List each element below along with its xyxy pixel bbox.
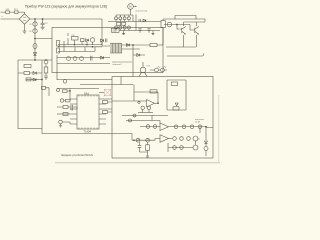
label R7 (72, 35, 75, 37)
wire aux top link (175, 16, 196, 20)
transistor Q1 (167, 22, 172, 27)
resistor R40 (204, 147, 208, 151)
label FU1 (6, 9, 18, 11)
resistor R19 (103, 101, 108, 104)
title text (25, 4, 107, 8)
label winding (112, 61, 132, 63)
resistor R20 (103, 111, 108, 114)
red mod component (104, 89, 110, 95)
capacitor C8 (67, 57, 71, 61)
diode VD7 (86, 39, 89, 42)
wire left rail (18, 59, 52, 61)
transistor Q9 (193, 136, 198, 141)
resistor R10 (57, 48, 60, 53)
wire sense mid (126, 116, 160, 124)
ground C27 (59, 124, 62, 128)
wire primary to T1 (102, 40, 110, 46)
resistor R28 (182, 125, 186, 129)
wire T1 secondary A (122, 44, 151, 46)
capacitor C18 (123, 26, 126, 29)
wire feedback left vertical (18, 60, 42, 129)
opamp U2 feedback loop (134, 85, 158, 104)
wire rectified vertical (132, 45, 134, 77)
wire ctrl bus B (57, 88, 99, 90)
diode VD9 (101, 56, 104, 59)
transistor Q8 (147, 106, 150, 109)
resistor R24 (133, 114, 136, 117)
capacitor C20 (139, 19, 140, 22)
wire right pin nets (106, 99, 112, 112)
wire primary lower (58, 47, 95, 52)
svg-text:220: 220 (112, 29, 117, 33)
resistor R11 (117, 22, 121, 25)
ground C2 (41, 27, 45, 29)
capacitor C21 (139, 29, 142, 33)
wire sense vertical (131, 134, 133, 141)
resistor R34 (180, 137, 184, 141)
wire pin3 net (57, 107, 77, 109)
resistor R16 (66, 99, 71, 102)
resistor R17 (63, 106, 68, 109)
wire LED link (150, 69, 167, 71)
svg-text:обмотка II: обмотка II (113, 64, 123, 66)
transistor Q3 (44, 60, 48, 64)
resistor R41 (26, 78, 31, 81)
capacitor C12 (115, 17, 118, 20)
wire T1 secondary B (122, 48, 141, 50)
wire fan arrow (133, 5, 136, 8)
wire emitter rail (166, 46, 196, 48)
op-amp U2 (147, 100, 155, 108)
wire out chain (206, 127, 213, 156)
resistor R5 (24, 72, 30, 75)
wire box stub (120, 77, 122, 85)
wire R14 (157, 44, 163, 46)
diode VD11 (127, 44, 130, 47)
bridge rectifier VD1 (19, 14, 30, 24)
resistor R42 (42, 86, 46, 89)
capacitor C22 (148, 29, 151, 33)
resistor R21 (150, 90, 157, 93)
resistor R29 (190, 125, 194, 129)
label setpoint (195, 119, 204, 123)
svg-text:ток: ток (197, 139, 200, 141)
IC right pins (99, 99, 106, 124)
capacitor C17 (119, 26, 122, 29)
wire R13 down (162, 19, 164, 45)
wire primary stubs (64, 33, 102, 47)
zener VD12 (137, 54, 140, 57)
ground R39 (146, 156, 149, 157)
wire fan down (130, 9, 132, 15)
wire cap bank vertical (135, 15, 137, 31)
capacitor C19 (127, 26, 130, 29)
resistor R26 (153, 125, 157, 129)
resistor R15 (63, 90, 68, 93)
resistor R39 (147, 142, 149, 156)
capacitor C15 (127, 17, 130, 20)
feedback loop box (167, 80, 186, 110)
wire U4 out (169, 138, 173, 140)
LED HL2 (161, 68, 165, 72)
transformer T1 (111, 43, 122, 53)
control box (112, 77, 213, 159)
wire branch to module (35, 38, 52, 40)
capacitor C24 (57, 89, 60, 92)
wire Q7 Q8 stubs (143, 110, 149, 113)
wire right bus end (163, 19, 205, 22)
varistor RU2 (33, 29, 37, 33)
svg-text:FU1: FU1 (6, 9, 10, 11)
varistor RU1 (33, 22, 37, 26)
svg-text:Прибор PW-123 (зарядное для ак: Прибор PW-123 (зарядное для аккумуляторо… (25, 4, 107, 8)
diode VD8 (101, 39, 104, 42)
node AC source ~ (1, 15, 3, 19)
wire snubber chain (34, 19, 36, 60)
ground module B (152, 31, 155, 35)
transistor Q2 (182, 27, 186, 35)
capacitor C9 (73, 57, 77, 61)
wire pin5 net (62, 122, 70, 124)
ground from bridge (24, 24, 26, 31)
bottom caption (61, 153, 94, 157)
wire R42 out (46, 88, 50, 96)
wire mid bus (108, 21, 161, 23)
wire ctrl top inner (57, 79, 112, 81)
wire pin1 net (67, 89, 70, 100)
svg-text:R10: R10 (72, 35, 75, 37)
IC pin ticks top (79, 95, 97, 97)
wire to primary cluster (101, 19, 103, 40)
resistor R23 (173, 107, 179, 110)
op-amp U3 (160, 123, 169, 131)
svg-text:TL494: TL494 (84, 130, 92, 134)
IC DA1 TL494 (77, 95, 99, 129)
wire U2 in (112, 100, 147, 102)
svg-text:DA1: DA1 (84, 91, 90, 95)
wire aux row lower (57, 63, 110, 65)
comparator chain top (140, 126, 160, 128)
svg-text:вентилятор: вентилятор (136, 11, 148, 13)
svg-text:Зарядное устройство PW-123: Зарядное устройство PW-123 (61, 153, 94, 157)
wire cap row stubs (116, 15, 129, 22)
wire cap row2 stubs (116, 25, 129, 30)
capacitor C10 (80, 57, 84, 61)
label fan (136, 11, 148, 13)
label C2 (45, 23, 48, 25)
capacitor C25 (60, 99, 63, 102)
resistor R6 (45, 64, 47, 67)
resistor R22 (172, 82, 178, 86)
label Q5 (147, 66, 150, 68)
label 220 box (112, 28, 120, 32)
diode VD14 (33, 78, 36, 81)
wire lower link (138, 112, 153, 114)
svg-text:~: ~ (1, 15, 3, 19)
transistor Q10 (193, 145, 198, 150)
wire lower module bus (119, 30, 160, 32)
wire red stub (99, 92, 104, 94)
trimmer R32 (146, 138, 150, 142)
resistor R25 (146, 125, 150, 129)
wire collector link (184, 21, 206, 23)
resistor R27 (174, 125, 178, 129)
wire zener (133, 54, 145, 56)
wire row C (168, 127, 200, 152)
ground module A (122, 31, 125, 35)
fuse FU1 (6, 11, 10, 14)
svg-text:RT1: RT1 (14, 9, 18, 11)
wire U3 out row (169, 126, 207, 128)
wire pin4 net (57, 113, 70, 115)
capacitor C23 (63, 80, 67, 84)
label RU1 RU2 (29, 24, 31, 33)
fan M1 (128, 4, 134, 10)
resistor R30 (198, 125, 202, 129)
wire base rail (164, 25, 195, 31)
wire main DC bus (30, 18, 102, 20)
resistor R12 (122, 22, 126, 25)
wire base drive vertical (42, 60, 132, 134)
capacitor C26 (71, 105, 73, 111)
transistor Q7 (141, 106, 144, 109)
trimmer R31 (136, 138, 140, 142)
capacitor C30 (138, 142, 148, 152)
resistor R35 (187, 137, 191, 141)
wire AC live input (1, 12, 25, 14)
capacitor C2 (41, 19, 45, 27)
diode VD13 (175, 103, 178, 106)
capacitor C5 (33, 43, 37, 48)
resistor R36 (173, 146, 177, 150)
resistor R18 (63, 113, 68, 116)
wire mid row (132, 139, 155, 141)
capacitor C13 (119, 17, 122, 20)
capacitor C28 (129, 119, 132, 122)
resistor R13 (161, 21, 165, 28)
capacitor C16 (115, 26, 118, 29)
capacitor C7 (106, 39, 107, 43)
thermistor RT1 (15, 11, 19, 14)
IC pin ticks bottom (79, 127, 97, 129)
page edge shadow bottom (55, 162, 220, 164)
resistor R4 (24, 65, 31, 68)
diode VD6 (33, 72, 36, 75)
page edge shadow right (218, 95, 220, 163)
wire primary bus A (58, 44, 102, 46)
label current (197, 139, 200, 141)
svg-text:M: M (129, 5, 131, 9)
wire cap row top (116, 15, 133, 22)
module box PSU (52, 28, 163, 73)
wire output hook (167, 54, 204, 57)
wire R5 VD6 (18, 72, 42, 74)
capacitor C14 (123, 17, 126, 20)
resistor R14 (150, 44, 157, 47)
diode VD10 (143, 19, 146, 22)
wire primary bus B (58, 46, 102, 48)
IC left pins (70, 99, 77, 124)
diode VD5 (33, 53, 36, 56)
op-amp U4 (160, 135, 169, 143)
capacitor C11 (91, 56, 93, 61)
svg-text:VT3: VT3 (147, 66, 150, 68)
wire left module vertical (56, 55, 58, 80)
resistor R37 (180, 146, 184, 150)
svg-text:R2: R2 (29, 31, 31, 33)
capacitor C27 (59, 120, 63, 124)
wire AC neutral input (1, 18, 20, 20)
wire to U4 (155, 139, 160, 141)
LED HL1 (155, 68, 159, 72)
wire pin2 net (64, 99, 70, 101)
LED HL3 (205, 141, 208, 144)
wire opto branch (26, 79, 42, 81)
svg-text:R1: R1 (29, 24, 31, 26)
wire ctrl bus A (80, 84, 133, 86)
wire sense top (122, 115, 168, 117)
resistor R9 (57, 41, 60, 47)
transistor Q6 (195, 27, 199, 35)
transistor Q4 (90, 38, 94, 42)
svg-text:14.4В: 14.4В (195, 121, 201, 123)
wire aux row (57, 57, 110, 59)
wire U2 out (155, 102, 159, 104)
transistor Q5 (140, 67, 146, 73)
resistor R33 (173, 137, 177, 141)
resistor R8 (81, 39, 85, 42)
node U2 in bubble (138, 101, 140, 103)
resistor R7 (72, 37, 79, 41)
capacitor C6 (44, 73, 48, 80)
